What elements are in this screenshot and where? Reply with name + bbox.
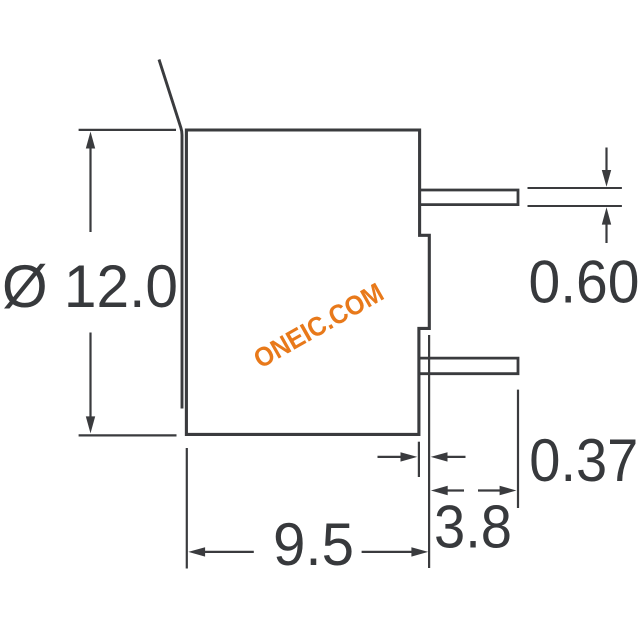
dimension line 9.5 left part (arrow pointing left)	[202, 551, 254, 553]
arrow 0.60 lower (pointing up)	[605, 224, 607, 243]
extension line 3.8 right	[517, 390, 519, 508]
arrow 0.37 left (pointing right)	[378, 456, 403, 458]
arrow 0.60 upper (pointing down)	[605, 148, 607, 173]
dimension line 9.5 right part (arrow pointing right)	[362, 551, 412, 553]
svg-text:ONEIC.COM: ONEIC.COM	[249, 277, 389, 374]
watermark ONEIC.COM	[249, 277, 389, 374]
svg-text:Ø 12.0: Ø 12.0	[2, 253, 178, 320]
extension line bottom-left (dia 12.0 bottom)	[79, 434, 177, 436]
arrow 0.37 right (pointing left)	[446, 456, 466, 458]
wire lead (diagonal + vertical along left edge)	[159, 60, 182, 409]
svg-text:0.37: 0.37	[529, 427, 638, 494]
extension line 0.60 bottom	[528, 205, 622, 207]
dimension line 3.8 right part (arrow pointing right)	[478, 489, 503, 491]
dimension line 3.8 left part (arrow pointing left)	[444, 489, 464, 491]
svg-text:9.5: 9.5	[273, 511, 354, 578]
arrowhead dia 12.0 down	[86, 416, 95, 433]
extension line right of body (long, shared 0.37 / 3.8 / 9.5)	[428, 335, 430, 568]
arrowhead dia 12.0 up	[86, 132, 95, 149]
component body outline	[186, 130, 429, 434]
extension line 0.37 left (short)	[418, 442, 420, 477]
dimension line dia 12.0 lower segment	[89, 333, 91, 421]
extension line 9.5 left	[186, 448, 188, 569]
upper terminal lead	[420, 190, 518, 205]
svg-text:3.8: 3.8	[434, 493, 512, 560]
extension line 0.60 top	[528, 187, 622, 189]
extension line top-left (dia 12.0 top)	[79, 129, 176, 131]
svg-text:0.60: 0.60	[529, 249, 640, 316]
dimension line dia 12.0 upper segment	[89, 145, 91, 232]
lower terminal lead	[420, 358, 519, 374]
